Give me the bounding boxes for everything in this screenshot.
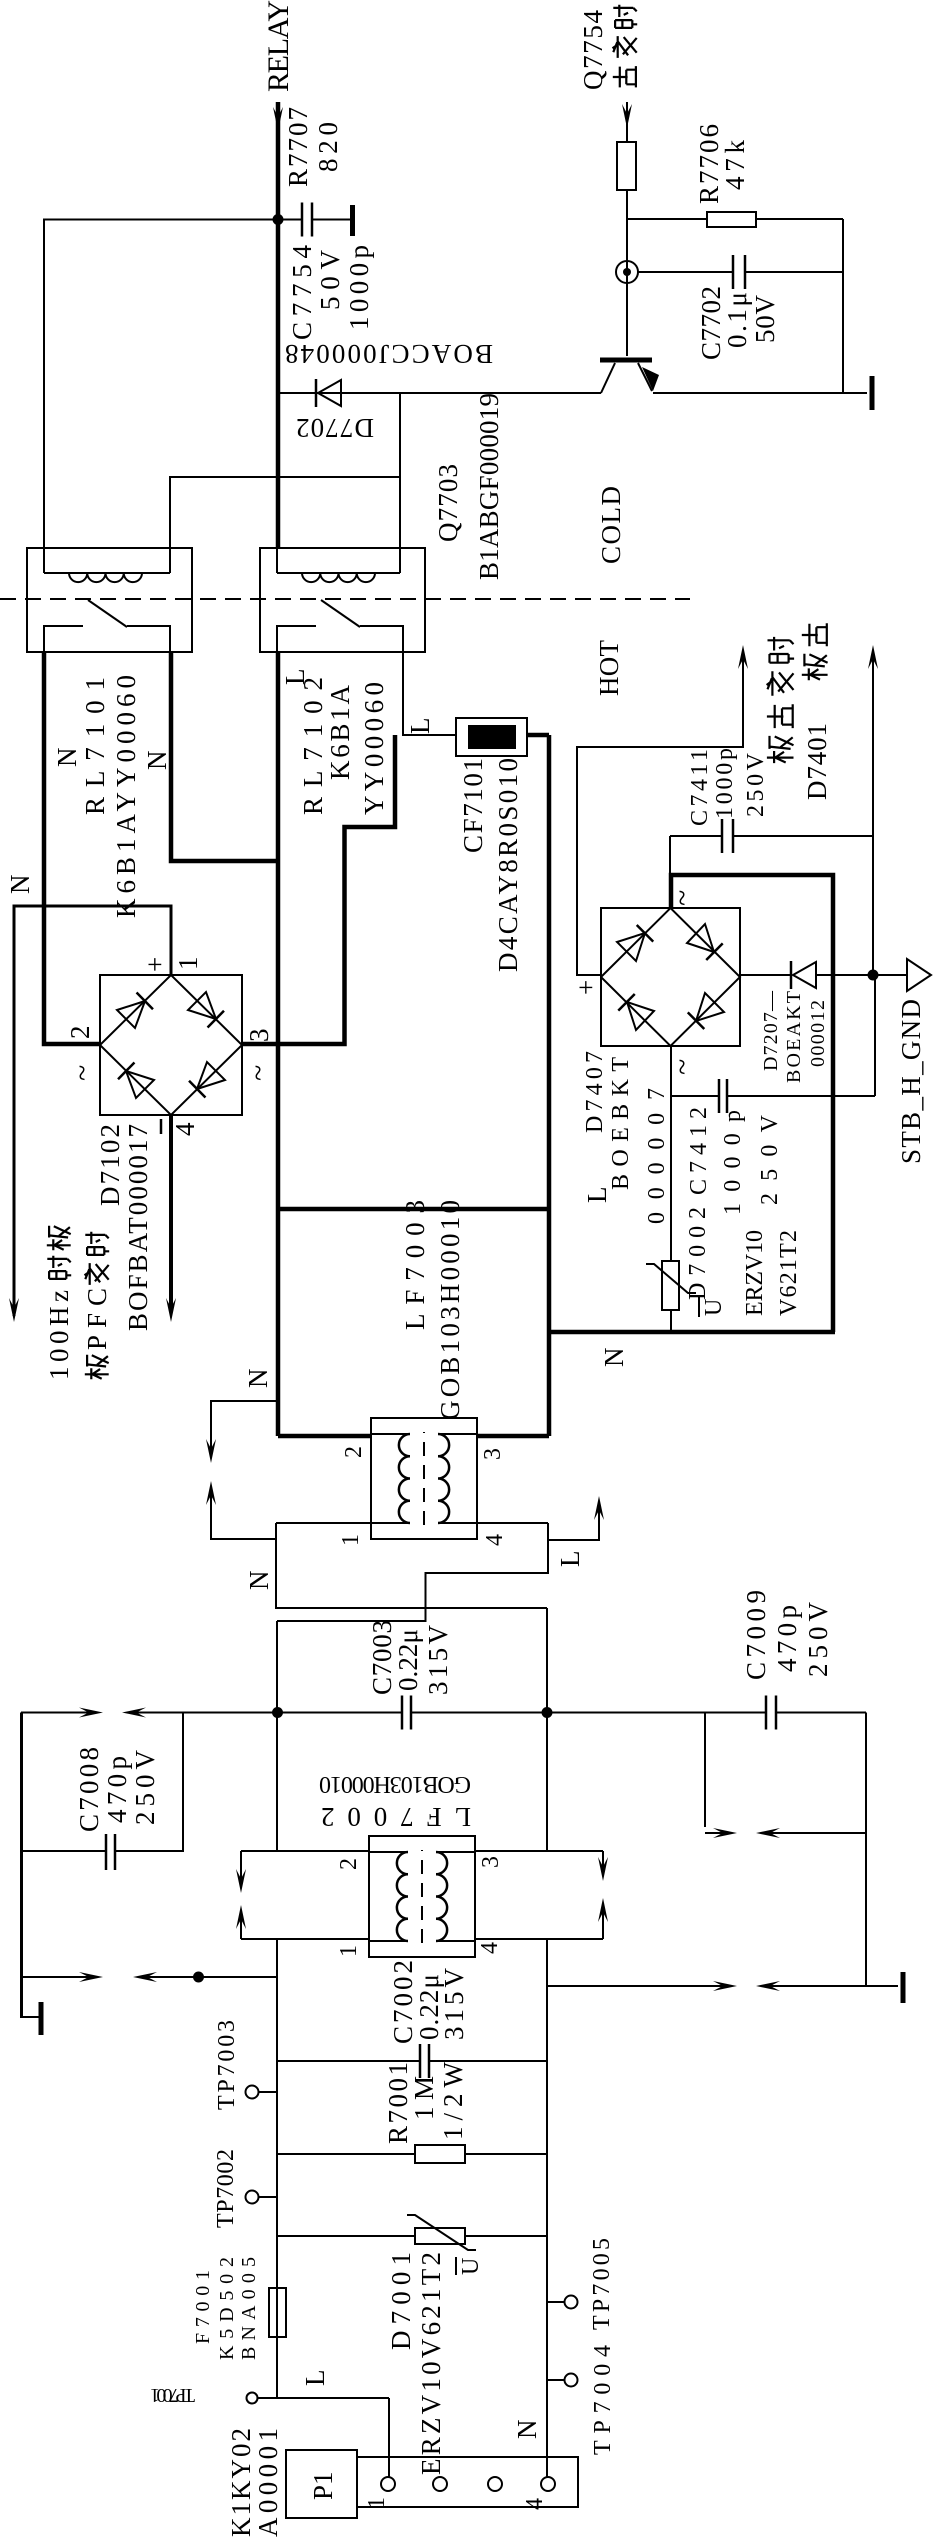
wire TP7001 vertical to P1 pin1 <box>258 2397 390 2399</box>
wire C7754 junction up to relay RL7101 coil <box>44 220 278 548</box>
svg-text:N: N <box>52 748 82 768</box>
svg-text:50V: 50V <box>315 250 345 311</box>
svg-text:PFC: PFC <box>82 1288 112 1350</box>
varistor D7002 U-bar label <box>698 1297 700 1317</box>
filter LF7003 pin1 stub <box>276 1522 371 1524</box>
node N rail dot at C7003 rail <box>542 1707 553 1718</box>
wire crossover N x931 <box>276 1607 547 1609</box>
wire D7102 terminal 3 to CF7101 node (thick) <box>242 735 395 1044</box>
label aux supply (qu fu dian yuan) <box>767 736 794 763</box>
filter LF7002 pin4 stub <box>475 1938 603 1940</box>
svg-text:CF7101: CF7101 <box>458 758 488 853</box>
svg-text:BNA005: BNA005 <box>238 2257 260 2360</box>
wire L branch x1330 (thick) <box>279 1207 549 1212</box>
filter LF7003 pin3 stub (thick) <box>477 1434 549 1439</box>
wire N input bracket arrows LF7003 <box>211 1401 278 1457</box>
svg-text:N: N <box>512 2420 542 2440</box>
svg-text:4: 4 <box>477 1942 503 1954</box>
node circle connector <box>616 261 638 283</box>
filter LF7002 core dashed <box>421 1850 423 1943</box>
svg-text:D7102: D7102 <box>95 1124 125 1206</box>
wire D7102 minus output to PFC (thick with arrow) <box>169 1115 173 1309</box>
wire RL7101 contact to bridge D7102 terminal 2 (thick) <box>44 652 100 1044</box>
svg-text:1000p: 1000p <box>720 1110 746 1215</box>
bridge rectifier D7102 box <box>100 975 242 1115</box>
wire N rail upper segment <box>546 1608 548 1850</box>
svg-text:820: 820 <box>313 122 343 172</box>
svg-text:V621T2: V621T2 <box>776 1230 802 1316</box>
svg-text:L: L <box>280 669 310 686</box>
filter LF7002 pin2 stub <box>241 1850 369 1852</box>
relay RL7101 coil <box>44 572 170 574</box>
bridge D7407 diode 3 <box>696 993 724 1021</box>
svg-text:YY00060: YY00060 <box>359 682 389 815</box>
relay RL7101 contact <box>44 626 83 652</box>
svg-text:Q7703: Q7703 <box>433 464 463 542</box>
capacitor C7008 branch <box>115 1713 183 1852</box>
svg-text:+: + <box>571 980 601 995</box>
svg-text:N: N <box>243 1369 273 1389</box>
wire relay node line N (thick) <box>276 652 281 1436</box>
wire L crossover from pin4 <box>277 1523 548 1621</box>
testpoint TP7002 <box>246 2191 259 2204</box>
varistor D7002 wire to N line <box>670 1310 672 1332</box>
svg-text:K5D502: K5D502 <box>216 2257 238 2360</box>
svg-text:L: L <box>555 1551 585 1568</box>
transistor Q7703 <box>600 358 652 363</box>
ground C7754 <box>350 205 355 236</box>
svg-text:LF7003: LF7003 <box>400 1200 430 1330</box>
wire Q7754 emitter input with arrow <box>626 102 628 142</box>
filter LF7002 box <box>369 1836 475 1957</box>
svg-text:D4CAY8R0S010: D4CAY8R0S010 <box>493 758 523 972</box>
resistor R7001 <box>277 2153 415 2155</box>
svg-text:RL7101: RL7101 <box>80 677 110 815</box>
svg-text:4: 4 <box>170 1122 200 1136</box>
wire ground line x562 with gap arrows and dot <box>23 1976 97 1978</box>
svg-text:N: N <box>142 751 172 771</box>
wire D7102 plus output to PFC (thick with arrow) <box>14 906 171 1316</box>
wire RL7102 right contact to CF7101 <box>403 652 456 735</box>
resistor series base (unlabeled) <box>617 142 636 190</box>
svg-text:K1KY02: K1KY02 <box>226 2428 256 2537</box>
svg-text:2: 2 <box>336 1858 362 1870</box>
capacitor C7009 <box>765 1696 768 1730</box>
svg-text:BOEAKT: BOEAKT <box>783 991 805 1083</box>
connector strip <box>357 2457 578 2507</box>
filter LF7003 winding B <box>438 1434 449 1523</box>
varistor D7002 <box>670 1096 672 1261</box>
svg-text:ERZV10V621T2: ERZV10V621T2 <box>416 2252 446 2475</box>
wire C7411 from AC node <box>669 836 671 875</box>
svg-text:STB_H_GND: STB_H_GND <box>896 999 926 1164</box>
svg-text:BOFBAT000017: BOFBAT000017 <box>123 1124 153 1331</box>
wire N to chassis ground with gap arrows <box>547 1985 731 1987</box>
svg-text:L: L <box>405 718 435 735</box>
capacitor C7412 branch <box>670 1046 672 1096</box>
wire L rail mid <box>276 1621 278 1851</box>
bridge D7102 diode 4 <box>126 1071 154 1098</box>
filter LF7003 box <box>371 1418 477 1539</box>
svg-text:D7002: D7002 <box>685 1207 711 1300</box>
relay RL7102 box <box>260 548 425 652</box>
svg-text:RELAY: RELAY <box>262 0 295 92</box>
svg-text:~: ~ <box>66 1065 99 1081</box>
svg-text:250V: 250V <box>803 1602 833 1678</box>
svg-text:HOT: HOT <box>594 640 624 697</box>
svg-text:47k: 47k <box>720 140 750 191</box>
testpoint TP7005 <box>565 2296 578 2309</box>
filter LF7002 winding B <box>436 1852 447 1941</box>
bridge rectifier D7102 diamond <box>100 975 242 1115</box>
capacitor C7754 <box>278 219 302 221</box>
varistor D7001 U-bar label <box>455 2257 457 2275</box>
capacitor C7003 <box>401 1696 404 1730</box>
svg-text:TP7005: TP7005 <box>589 2238 615 2330</box>
svg-text:3: 3 <box>244 1029 274 1043</box>
wire D7702 branch to relay coils <box>170 393 400 547</box>
svg-text:D7407: D7407 <box>582 1051 608 1133</box>
connector P1 box <box>286 2450 357 2518</box>
svg-text:50V: 50V <box>750 295 780 344</box>
svg-text:N: N <box>5 875 35 895</box>
filter LF7002 pin3 stub <box>475 1850 603 1852</box>
testpoint TP7004 <box>565 2374 578 2387</box>
wire D7407 plus to aux supply arrow <box>577 651 743 975</box>
wire CF7101 to LF7003 pin3 L line (thick) <box>527 733 549 738</box>
wire top jog to ground left <box>21 1713 40 2018</box>
svg-text:U: U <box>458 2258 484 2275</box>
svg-text:LF7002: LF7002 <box>321 1802 471 1832</box>
wire L rail lower <box>276 1939 278 2398</box>
svg-text:TP7002: TP7002 <box>213 2149 239 2228</box>
svg-text:K6B1AYY00060: K6B1AYY00060 <box>111 675 141 918</box>
node C7754 junction <box>273 214 284 225</box>
wire top y22 line <box>21 1713 23 2018</box>
resistor R7706 <box>627 218 707 220</box>
svg-text:COLD: COLD <box>596 486 626 564</box>
svg-text:3: 3 <box>478 1856 504 1868</box>
svg-text:GOB103H00010: GOB103H00010 <box>319 1771 471 1797</box>
wire C7009 return with gap arrows <box>704 1713 706 1828</box>
testpoint TP7001 <box>247 2393 258 2404</box>
node STB junction <box>868 970 879 981</box>
svg-text:P1: P1 <box>308 2471 338 2500</box>
capacitor C7002 <box>277 2060 420 2062</box>
svg-text:4: 4 <box>482 1534 508 1546</box>
svg-text:N: N <box>244 1571 274 1591</box>
wire N rail lower <box>546 1939 548 2477</box>
svg-text:250V: 250V <box>743 752 769 817</box>
wire RELAY feed (thick) with arrow <box>276 102 281 548</box>
svg-text:000012: 000012 <box>807 1000 829 1067</box>
svg-text:L: L <box>582 1187 612 1204</box>
ground Q7703 emitter <box>870 376 875 410</box>
svg-text:GOB103H00010: GOB103H00010 <box>435 1200 465 1420</box>
svg-text:1000p: 1000p <box>344 245 374 330</box>
varistor D7001 <box>277 2235 415 2237</box>
svg-text:A00001: A00001 <box>253 2428 283 2537</box>
svg-text:RL7102: RL7102 <box>298 677 328 815</box>
svg-text:C7008: C7008 <box>74 1747 104 1832</box>
svg-text:1: 1 <box>173 957 203 971</box>
svg-text:1/2W: 1/2W <box>438 2061 468 2140</box>
svg-text:U: U <box>701 1299 727 1316</box>
bridge D7407 diode 1 <box>617 933 645 961</box>
svg-text:315V: 315V <box>423 1625 453 1696</box>
svg-text:F7001: F7001 <box>192 2270 214 2344</box>
wire bottom y866 line <box>865 1713 867 1987</box>
relay RL7101 coil leads <box>43 548 45 573</box>
svg-text:TP7003: TP7003 <box>214 2020 240 2110</box>
testpoint TP7003 <box>246 2086 259 2099</box>
svg-text:4: 4 <box>522 2498 548 2510</box>
bridge D7407 diode 2 <box>687 924 714 952</box>
svg-text:R7707: R7707 <box>283 107 313 187</box>
node L rail dot at C7003 rail <box>272 1707 283 1718</box>
wire LF7002 right bracket arrows <box>602 1851 604 1875</box>
svg-text:C7411: C7411 <box>687 749 713 826</box>
relay RL7102 coil leads <box>276 548 278 573</box>
svg-text:Q7754: Q7754 <box>578 10 608 91</box>
relay RL7101 box <box>27 548 192 652</box>
wire emitter bottom rail <box>842 219 844 392</box>
svg-text:K6B1A: K6B1A <box>325 685 355 781</box>
bridge rectifier D7407 box <box>601 908 740 1046</box>
relay RL7102 coil <box>277 572 400 574</box>
bridge D7102 diode 3 <box>197 1062 225 1089</box>
capacitor C7702 <box>638 271 733 273</box>
filter LF7002 pin1 stub <box>241 1938 369 1940</box>
svg-text:BOEBKT: BOEBKT <box>608 1057 634 1190</box>
svg-text:ERZV10: ERZV10 <box>742 1230 768 1316</box>
svg-text:+: + <box>140 957 170 972</box>
svg-text:TP7001: TP7001 <box>150 2384 195 2406</box>
diode D7207 <box>740 974 791 976</box>
svg-text:1: 1 <box>336 1945 362 1957</box>
bridge D7407 diode 4 <box>627 1002 654 1030</box>
wire X-rail with C7003 and gap arrows <box>21 1712 97 1714</box>
svg-text:L: L <box>300 2370 330 2387</box>
filter LF7003 winding A <box>399 1434 410 1523</box>
wire STB line with arrow <box>872 651 874 975</box>
svg-text:470p: 470p <box>772 1605 802 1672</box>
svg-text:0.1μ: 0.1μ <box>722 292 752 348</box>
fuse CF7101 <box>456 718 527 756</box>
wire base line <box>626 190 628 356</box>
svg-text:D7207—: D7207— <box>760 990 782 1071</box>
svg-text:250V: 250V <box>130 1750 160 1826</box>
wire LF7002 left bracket arrows <box>240 1851 242 1887</box>
diode D7702 <box>315 379 318 407</box>
wire RL7101 right contact to node (thick) <box>171 652 278 861</box>
svg-text:R7001: R7001 <box>383 2062 413 2144</box>
svg-text:D7001: D7001 <box>386 2252 416 2350</box>
svg-text:C7754: C7754 <box>287 245 317 341</box>
svg-text:~: ~ <box>242 1065 275 1081</box>
svg-text:1M: 1M <box>409 2076 439 2120</box>
svg-text:315V: 315V <box>439 1968 469 2041</box>
ground chassis bar right <box>901 1972 906 2003</box>
bridge D7102 diode 2 <box>188 992 216 1019</box>
bridge rectifier D7407 diamond <box>601 908 740 1046</box>
filter LF7003 pin4 stub <box>477 1522 548 1524</box>
svg-text:1: 1 <box>364 2497 390 2509</box>
svg-text:D7702: D7702 <box>296 413 374 443</box>
svg-text:C7412: C7412 <box>686 1107 712 1195</box>
svg-text:100Hz: 100Hz <box>44 1290 74 1380</box>
svg-text:250V: 250V <box>757 1114 783 1205</box>
wire RL7102 coil to D7702 line <box>399 393 401 548</box>
svg-text:~: ~ <box>666 890 699 906</box>
wire N to D7407 top vertex (thick) <box>671 875 833 1332</box>
wire N branch x1207 down to D7407 (thick) <box>549 1330 835 1335</box>
wire N crossover from pin1 <box>276 1523 547 1608</box>
filter LF7002 winding A <box>397 1852 408 1941</box>
svg-text:C7009: C7009 <box>741 1590 771 1680</box>
ground flag STB_H_GND <box>878 974 907 976</box>
svg-text:D7401: D7401 <box>802 723 832 800</box>
wire C7009 loop <box>547 1712 766 1714</box>
fuse F7001 <box>269 2288 286 2337</box>
svg-text:TP7004: TP7004 <box>590 2345 616 2455</box>
relay RL7102 contact <box>277 626 316 652</box>
connector pin circles <box>381 2477 395 2491</box>
svg-text:BOACCJ000048: BOACCJ000048 <box>285 339 493 369</box>
svg-text:470p: 470p <box>102 1756 132 1823</box>
bridge D7102 diode 1 <box>117 1001 145 1028</box>
svg-text:2: 2 <box>341 1446 367 1458</box>
isolation dashed line HOT/COLD <box>0 598 690 600</box>
svg-text:3: 3 <box>480 1448 506 1460</box>
svg-text:0.22μ: 0.22μ <box>393 1629 423 1691</box>
filter LF7003 core dashed <box>423 1432 425 1525</box>
svg-text:1: 1 <box>338 1534 364 1546</box>
ground left bar <box>39 2002 44 2035</box>
svg-text:2: 2 <box>65 1026 95 1040</box>
svg-text:000007: 000007 <box>644 1088 670 1224</box>
wire L arrow branch LF7003 pin4 <box>548 1502 599 1540</box>
svg-text:N: N <box>599 1348 629 1368</box>
svg-text:1000p: 1000p <box>712 748 738 819</box>
svg-text:B1ABGF000019: B1ABGF000019 <box>474 393 504 580</box>
filter LF7003 pin2 stub (thick) <box>278 1434 371 1439</box>
